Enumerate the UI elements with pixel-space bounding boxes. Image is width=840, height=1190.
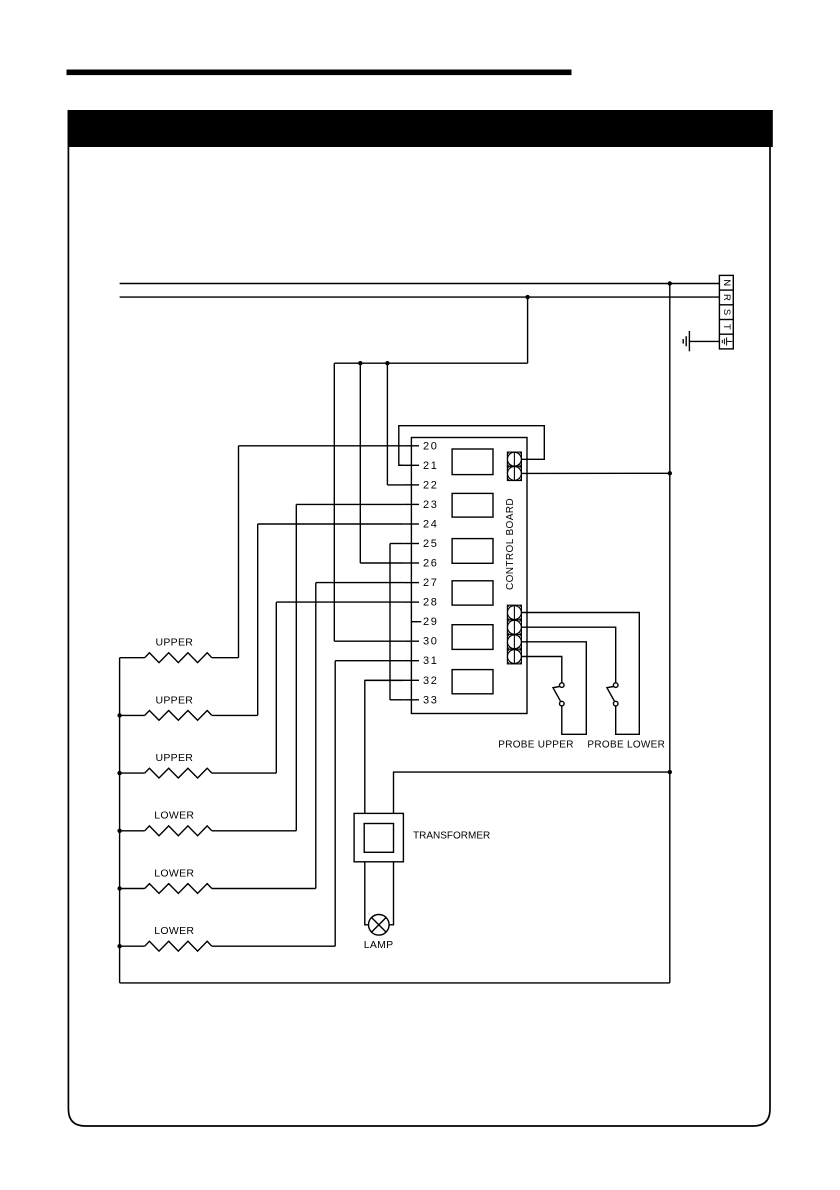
relay box K1 xyxy=(452,449,493,475)
resistor LOWER 5 (LOWER) xyxy=(120,884,316,894)
svg-text:33: 33 xyxy=(423,694,438,706)
pin 21 stub xyxy=(404,464,419,466)
wire riser to pin xyxy=(275,602,277,773)
svg-text:31: 31 xyxy=(423,655,438,667)
resistor UPPER 2 (UPPER) xyxy=(120,711,258,721)
page border xyxy=(68,111,770,1126)
junction left bus xyxy=(117,713,121,717)
svg-text:LAMP: LAMP xyxy=(364,939,394,951)
svg-text:LOWER: LOWER xyxy=(154,867,194,879)
wire pin22 riser xyxy=(386,363,388,485)
wire to pin 20 xyxy=(239,445,404,447)
relay box K6 xyxy=(452,670,493,694)
pin 26 stub xyxy=(404,562,419,564)
wire connector J2-3 to probe upper bottom xyxy=(521,642,586,735)
resistor UPPER 1 (UPPER) xyxy=(120,653,239,663)
pin 28 stub xyxy=(404,601,419,603)
junction left bus xyxy=(117,829,121,833)
relay box K3 xyxy=(452,539,493,564)
junction right drop / connector wire xyxy=(668,471,672,475)
connector J2 cell 1 xyxy=(507,605,521,620)
ground symbol xyxy=(683,331,719,351)
wire to pin 30 xyxy=(334,640,403,642)
svg-text:20: 20 xyxy=(423,440,438,452)
svg-text:30: 30 xyxy=(423,636,438,648)
pin 22 stub xyxy=(404,484,419,486)
junction right drop / transformer wire xyxy=(668,770,672,774)
pin 32 stub xyxy=(404,679,419,681)
wire riser to pin xyxy=(238,446,240,658)
resistor UPPER 3 (UPPER) xyxy=(120,768,277,778)
terminal ground glyph xyxy=(722,337,732,345)
svg-text:UPPER: UPPER xyxy=(155,637,193,649)
svg-text:22: 22 xyxy=(423,479,438,491)
wire left bus xyxy=(119,658,121,983)
connector J1 cell 1 xyxy=(507,452,521,466)
svg-text:28: 28 xyxy=(423,597,438,609)
wire connector J2-1 to probe lower bottom xyxy=(521,613,639,735)
svg-text:25: 25 xyxy=(423,538,438,550)
junction y363 / pin26 riser xyxy=(358,361,362,365)
connector J2 cell 4 xyxy=(507,649,521,664)
wire to pin 31 xyxy=(335,660,403,662)
svg-text:UPPER: UPPER xyxy=(155,694,193,706)
svg-text:29: 29 xyxy=(423,616,438,628)
relay box K2 xyxy=(452,493,493,517)
svg-text:UPPER: UPPER xyxy=(155,752,193,764)
wire pin30 riser xyxy=(333,363,335,641)
svg-text:21: 21 xyxy=(423,460,438,472)
pin 33 stub xyxy=(404,699,419,701)
relay box K5 xyxy=(452,625,493,650)
wire bus L1 xyxy=(120,283,720,285)
wire to pin 27 xyxy=(316,582,404,584)
svg-text:LOWER: LOWER xyxy=(154,810,194,822)
switch PROBE UPPER xyxy=(553,683,564,706)
wire bottom return xyxy=(120,982,670,984)
wire pin21 loop to connector J1 xyxy=(399,426,545,466)
wire transformer to lamp right xyxy=(387,862,394,925)
junction left bus xyxy=(117,886,121,890)
lamp DS1 xyxy=(369,915,390,936)
wire riser to pin xyxy=(315,583,317,889)
pin 25 stub xyxy=(404,543,419,545)
wire connector J1-2 to right drop xyxy=(521,472,670,474)
wire connector J2-2 to probe lower top xyxy=(521,627,616,683)
wire connector J2-4 to probe upper top xyxy=(521,657,562,683)
svg-text:26: 26 xyxy=(423,558,438,570)
resistor LOWER 4 (LOWER) xyxy=(120,826,297,836)
connector J1 cell 2 xyxy=(507,466,521,480)
switch PROBE LOWER xyxy=(607,683,618,706)
junction bus L2 / board drop xyxy=(525,295,529,299)
wire board drop from bus L2 xyxy=(527,297,529,363)
header bar xyxy=(68,110,773,147)
wire to pin 28 xyxy=(276,601,403,603)
svg-text:T: T xyxy=(721,324,732,330)
title underline xyxy=(67,70,572,76)
wire to pin 32 xyxy=(365,679,404,681)
junction left bus xyxy=(117,771,121,775)
wire pin25 to pin33 link xyxy=(389,544,391,700)
junction left bus xyxy=(117,944,121,948)
wire to pin 25 xyxy=(390,543,404,545)
svg-text:27: 27 xyxy=(423,577,438,589)
pin 29 stub xyxy=(411,621,421,623)
junction bus L1 / right drop xyxy=(668,281,672,285)
svg-text:S: S xyxy=(721,309,732,315)
pin 27 stub xyxy=(404,582,419,584)
wire to pin 33 xyxy=(390,699,404,701)
transformer T1 xyxy=(354,813,403,861)
wire riser to pin xyxy=(295,504,297,830)
wire transformer to lamp left xyxy=(365,862,371,925)
resistor LOWER 6 (LOWER) xyxy=(120,941,336,951)
wire to pin 24 xyxy=(258,523,404,525)
wire to pin 22 xyxy=(387,484,403,486)
svg-text:CONTROL BOARD: CONTROL BOARD xyxy=(505,498,516,590)
pin 23 stub xyxy=(404,503,419,505)
svg-text:TRANSFORMER: TRANSFORMER xyxy=(413,830,490,841)
pin 20 stub xyxy=(404,445,419,447)
svg-text:23: 23 xyxy=(423,499,438,511)
svg-text:LOWER: LOWER xyxy=(154,925,194,937)
wire riser to pin xyxy=(257,524,259,715)
wire right drop xyxy=(669,284,671,983)
wire bus L2 xyxy=(120,296,720,298)
connector J2 cell 2 xyxy=(507,620,521,635)
connector J2 cell 3 xyxy=(507,635,521,650)
wire pin32 to transformer primary xyxy=(365,680,404,813)
wire pin26 riser xyxy=(359,363,361,563)
pin 31 stub xyxy=(404,660,419,662)
control board outline xyxy=(411,438,527,714)
svg-text:PROBE LOWER: PROBE LOWER xyxy=(587,740,665,751)
wire transformer to right drop xyxy=(394,772,670,813)
pin 24 stub xyxy=(404,523,419,525)
wire to pin 23 xyxy=(296,503,403,505)
svg-text:R: R xyxy=(721,294,732,301)
wire riser to pin xyxy=(334,661,336,946)
relay box K4 xyxy=(452,581,493,605)
wire to pin 26 xyxy=(360,562,403,564)
svg-text:PROBE UPPER: PROBE UPPER xyxy=(498,740,574,751)
svg-text:32: 32 xyxy=(423,675,438,687)
wire distribution line y363 xyxy=(334,362,527,364)
wire to pin 21 xyxy=(399,464,404,466)
junction y363 / pin22 riser xyxy=(385,361,389,365)
pin 30 stub xyxy=(404,640,419,642)
svg-text:24: 24 xyxy=(423,519,438,531)
terminal block NRST xyxy=(719,275,733,349)
svg-text:N: N xyxy=(721,279,732,286)
